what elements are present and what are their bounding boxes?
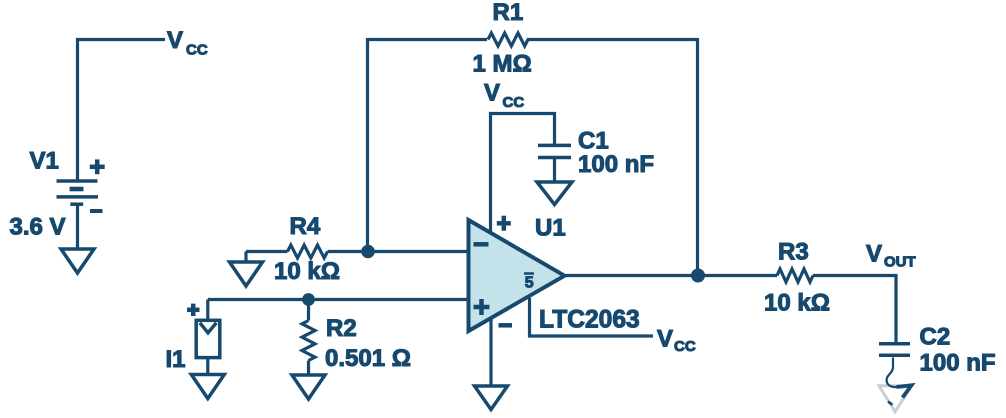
svg-text:CC: CC (503, 94, 525, 111)
svg-text:0.501 Ω: 0.501 Ω (325, 345, 411, 372)
svg-text:V: V (167, 27, 183, 54)
svg-text:U1: U1 (535, 215, 566, 242)
svg-text:R3: R3 (778, 239, 809, 266)
svg-text:100 nF: 100 nF (578, 151, 654, 178)
svg-text:R1: R1 (493, 0, 524, 26)
svg-text:3.6 V: 3.6 V (10, 214, 66, 241)
svg-text:CC: CC (674, 338, 696, 355)
svg-text:V: V (657, 326, 673, 353)
svg-text:I1: I1 (166, 346, 186, 373)
svg-text:V: V (484, 80, 500, 107)
svg-text:V: V (866, 241, 882, 268)
svg-text:C2: C2 (920, 324, 951, 351)
svg-text:CC: CC (186, 42, 208, 59)
svg-text:10 kΩ: 10 kΩ (274, 258, 340, 285)
svg-text:R2: R2 (326, 315, 357, 342)
svg-text:5: 5 (525, 275, 534, 292)
svg-text:10 kΩ: 10 kΩ (764, 290, 830, 317)
svg-text:1 MΩ: 1 MΩ (473, 51, 532, 78)
svg-text:100 nF: 100 nF (920, 350, 996, 377)
svg-text:OUT: OUT (884, 254, 916, 271)
svg-text:R4: R4 (290, 213, 321, 240)
svg-text:V1: V1 (30, 148, 59, 175)
svg-text:LTC2063: LTC2063 (539, 307, 640, 334)
